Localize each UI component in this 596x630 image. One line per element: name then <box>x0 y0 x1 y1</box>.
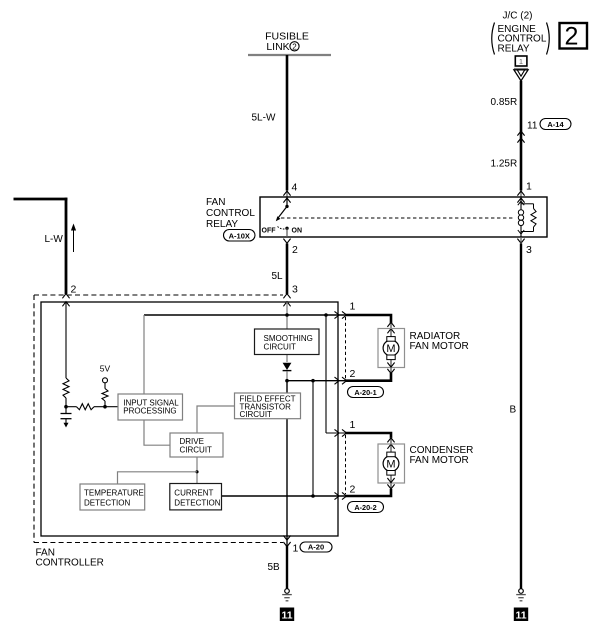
wire 5B to ground <box>286 536 288 546</box>
resistor R3 pull-up <box>104 383 106 389</box>
svg-text:OFF: OFF <box>262 228 277 235</box>
svg-text:2: 2 <box>350 484 356 496</box>
svg-text:M: M <box>386 343 395 355</box>
J/C pin box 1 <box>515 56 527 66</box>
svg-text:2: 2 <box>71 284 77 296</box>
wire 0.85R from J/C to connector A-14 <box>520 81 523 191</box>
svg-text:11: 11 <box>515 609 526 621</box>
junction <box>195 470 198 473</box>
wire 5L relay pin2 to fan controller pin 3 <box>286 244 289 295</box>
svg-text:2: 2 <box>292 42 297 51</box>
junction <box>311 379 315 383</box>
connector A-20-1 dashed line <box>345 317 347 379</box>
svg-text:PROCESSING: PROCESSING <box>123 407 176 416</box>
ground 11 (engine relay circuit) <box>519 589 524 594</box>
relay coil <box>520 197 522 210</box>
junction <box>285 313 289 317</box>
wire: supply branch y=315 to radiator pin 1 and input signal processing <box>144 314 346 316</box>
relay K1 box <box>260 197 547 237</box>
svg-text:1: 1 <box>350 419 356 431</box>
wire to input signal processing <box>105 406 118 408</box>
wire crossing marks at y=315 <box>335 311 340 318</box>
svg-text:M: M <box>386 459 395 471</box>
fusible link circled 2 <box>290 42 299 51</box>
capacitor C1 to internal ground <box>65 407 67 413</box>
svg-text:CONTROL: CONTROL <box>206 208 255 219</box>
direction arrow <box>73 229 75 252</box>
wire: controller main line diode to pin1 <box>286 372 288 380</box>
resistor R1 <box>63 378 69 398</box>
svg-text:FAN MOTOR: FAN MOTOR <box>410 455 469 466</box>
wire: input signal processing to supply branch <box>143 315 145 394</box>
block U5 TEMPERATURE DETECTION <box>80 484 145 510</box>
svg-text:RELAY: RELAY <box>206 219 238 230</box>
svg-text:5V: 5V <box>100 364 111 374</box>
svg-text:11: 11 <box>527 121 538 132</box>
svg-text:2: 2 <box>292 244 298 256</box>
wire to condenser fan motor pin 1 <box>346 433 392 438</box>
wire: FET output y=380.7 to radiator pin 2 <box>287 380 346 382</box>
svg-text:4: 4 <box>292 182 298 194</box>
svg-text:CIRCUIT: CIRCUIT <box>240 410 273 419</box>
svg-text:L-W: L-W <box>45 234 64 245</box>
svg-text:FAN: FAN <box>206 197 225 208</box>
svg-text:RELAY: RELAY <box>498 43 530 54</box>
svg-text:2: 2 <box>350 368 356 380</box>
wire B to ground <box>520 237 522 244</box>
wire crossing marks at y=433 <box>335 429 340 436</box>
wire from pin 2 down to resistor R1 <box>65 302 67 378</box>
svg-text:0.85R: 0.85R <box>491 97 518 108</box>
svg-text:A-14: A-14 <box>547 120 564 129</box>
page reference box 2 <box>560 23 588 49</box>
ground 11 (fan controller) <box>285 589 290 594</box>
junction <box>311 494 315 498</box>
connector A-20-2 dashed line <box>345 435 347 494</box>
block U1 SMOOTHING CIRCUIT <box>255 329 320 355</box>
svg-text:B: B <box>510 405 517 416</box>
svg-text:DETECTION: DETECTION <box>84 498 130 507</box>
wire 5L-W from fusible link to relay pin 4 <box>286 55 289 191</box>
svg-text:A-20: A-20 <box>308 542 324 551</box>
connector oval A-20 <box>300 542 332 552</box>
junction <box>324 313 328 317</box>
wire: link to condenser return <box>312 381 314 496</box>
wire: condenser pin 1 feed <box>326 432 346 434</box>
svg-text:A-20-2: A-20-2 <box>354 503 376 512</box>
parenthesis right <box>547 23 550 55</box>
connector oval A-20-2 <box>348 502 384 513</box>
svg-text:5B: 5B <box>268 562 281 573</box>
wire: FET circuit to drive circuit <box>197 406 235 433</box>
svg-text:CONTROLLER: CONTROLLER <box>36 557 104 568</box>
relay switch to pin 2 <box>286 228 288 237</box>
connector oval A-10X <box>224 230 256 242</box>
svg-text:5L: 5L <box>272 271 284 282</box>
relay switch arm (OFF position) <box>278 206 287 217</box>
parenthesis left <box>492 23 495 55</box>
svg-text:CURRENT: CURRENT <box>174 488 213 497</box>
svg-text:DETECTION: DETECTION <box>174 499 220 508</box>
svg-text:3: 3 <box>292 284 298 296</box>
relay switch dashed throw arc <box>278 227 286 230</box>
condenser fan motor M2 <box>378 444 405 483</box>
junction <box>285 379 289 383</box>
svg-text:FAN MOTOR: FAN MOTOR <box>410 341 469 352</box>
svg-text:1: 1 <box>519 57 523 66</box>
connector oval A-14 <box>540 119 571 130</box>
fusible link bus bar <box>248 54 331 56</box>
svg-text:1.25R: 1.25R <box>491 159 518 170</box>
diode D1 <box>283 363 292 370</box>
svg-text:1: 1 <box>526 181 532 193</box>
wire: current detection to condenser pin 2 <box>222 495 346 497</box>
fan controller pin 1 exit <box>283 536 290 541</box>
svg-text:CIRCUIT: CIRCUIT <box>180 445 213 454</box>
resistor R2 <box>66 406 77 408</box>
wire: branch to condenser pin 1 <box>325 315 327 433</box>
block U6 CURRENT DETECTION <box>170 484 222 510</box>
svg-text:ON: ON <box>292 228 303 235</box>
relay switch common from pin 4 <box>286 197 288 206</box>
relay coil control dashed line <box>281 217 515 219</box>
wire: controller main line pin3 to diode <box>286 302 288 362</box>
relay pin 2 <box>283 239 290 244</box>
fan controller inner box <box>41 302 338 536</box>
svg-text:3: 3 <box>526 244 532 256</box>
wire crossing marks at y=496 <box>335 492 340 499</box>
wire crossing marks at y=380.7 <box>335 377 340 384</box>
J/C double triangle symbol <box>514 68 528 70</box>
wire L-W from off-page <box>14 198 68 201</box>
wire: drive circuit to current detection <box>196 457 198 485</box>
fan controller dashed enclosure <box>34 294 283 296</box>
svg-text:2: 2 <box>565 23 579 51</box>
svg-text:5L-W: 5L-W <box>252 113 276 124</box>
junction <box>64 405 68 409</box>
wire to radiator fan motor pin 1 <box>346 315 392 323</box>
block U4 DRIVE CIRCUIT <box>170 433 223 457</box>
wire: branch to temperature detection <box>118 472 198 485</box>
svg-text:TEMPERATURE: TEMPERATURE <box>84 489 144 498</box>
connector A-14 pin 11 crossing <box>517 131 524 136</box>
svg-text:1: 1 <box>350 301 356 313</box>
relay ON contact <box>285 227 288 230</box>
svg-text:A-10X: A-10X <box>229 231 250 240</box>
block U3 FIELD EFFECT TRANSISTOR CIRCUIT <box>235 393 301 419</box>
svg-text:11: 11 <box>281 609 292 621</box>
wire: input signal processing to drive circuit <box>144 420 170 445</box>
connector oval A-20-1 <box>348 387 384 398</box>
junction <box>103 405 107 409</box>
svg-text:J/C (2): J/C (2) <box>503 10 533 21</box>
radiator fan motor M1 <box>378 329 405 368</box>
svg-text:1: 1 <box>293 543 299 555</box>
relay pin 3 <box>517 239 524 244</box>
svg-text:CIRCUIT: CIRCUIT <box>264 342 297 351</box>
svg-text:LINK: LINK <box>266 41 289 53</box>
block U2 INPUT SIGNAL PROCESSING <box>118 394 183 420</box>
relay coil parallel resistor <box>521 203 534 205</box>
svg-text:A-20-1: A-20-1 <box>354 388 376 397</box>
